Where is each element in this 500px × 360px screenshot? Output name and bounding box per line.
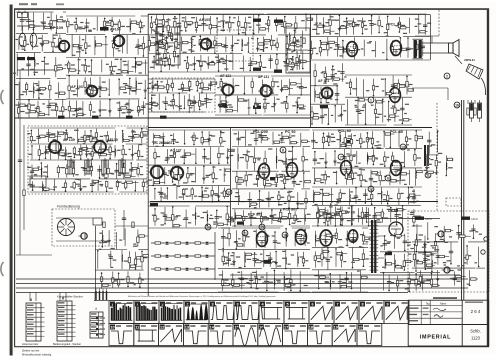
wire bbox=[310, 13, 426, 15]
value label bbox=[273, 40, 276, 41]
wire bbox=[215, 63, 217, 65]
value label bbox=[225, 22, 228, 23]
value label bbox=[121, 26, 125, 27]
value label bbox=[88, 93, 92, 94]
value label bbox=[248, 144, 252, 145]
wire bbox=[16, 33, 48, 35]
wire bbox=[110, 61, 112, 73]
value label bbox=[301, 20, 305, 21]
svg-text:Meßwerte mit Röhrenvoltmeter b: Meßwerte mit Röhrenvoltmeter bei Betrieb… bbox=[128, 295, 276, 298]
value label bbox=[40, 43, 44, 44]
wire bbox=[45, 114, 50, 116]
wire bbox=[384, 151, 386, 166]
IF dashed box bbox=[152, 78, 215, 112]
value label bbox=[335, 73, 337, 74]
capacitor bbox=[215, 216, 219, 218]
wire bbox=[195, 148, 197, 163]
value label bbox=[186, 154, 188, 155]
wire bbox=[297, 192, 299, 208]
resistor bbox=[68, 106, 70, 110]
resistor bbox=[348, 21, 354, 23]
value label bbox=[307, 214, 311, 215]
wire bbox=[398, 132, 400, 147]
value label bbox=[246, 216, 248, 217]
resistor bbox=[292, 62, 294, 68]
wire bbox=[336, 86, 338, 104]
value label bbox=[239, 177, 243, 178]
ground bbox=[292, 158, 294, 160]
resistor bbox=[417, 136, 423, 138]
value label bbox=[202, 42, 206, 43]
value label bbox=[363, 141, 366, 142]
wire bbox=[353, 18, 355, 35]
value label bbox=[131, 110, 134, 111]
value label bbox=[205, 188, 209, 189]
wire bbox=[189, 80, 191, 91]
ground bbox=[203, 177, 205, 179]
wire bbox=[73, 181, 75, 190]
value label bbox=[258, 103, 261, 104]
wire bbox=[256, 203, 258, 205]
value label bbox=[369, 156, 371, 157]
resistor bbox=[420, 31, 426, 33]
value label bbox=[96, 88, 100, 89]
value label bbox=[22, 91, 26, 92]
wire bbox=[218, 186, 220, 201]
wire bbox=[90, 163, 92, 177]
wire bbox=[268, 192, 270, 208]
value label bbox=[375, 86, 379, 87]
wire bbox=[17, 69, 60, 71]
wire bbox=[310, 59, 430, 61]
value label bbox=[221, 192, 225, 193]
value label bbox=[244, 44, 248, 45]
wire bbox=[378, 172, 380, 174]
value label bbox=[82, 39, 85, 40]
wire bbox=[62, 68, 66, 70]
value label bbox=[41, 153, 44, 154]
value label bbox=[208, 99, 212, 100]
wire bbox=[267, 13, 310, 15]
wire bbox=[349, 50, 355, 52]
value label bbox=[262, 67, 266, 68]
svg-text:1: 1 bbox=[370, 98, 372, 102]
wire bbox=[191, 38, 193, 53]
value label bbox=[59, 111, 63, 112]
resistor bbox=[394, 108, 396, 114]
value label bbox=[287, 192, 291, 193]
wire bbox=[129, 140, 133, 142]
capacitor bbox=[313, 158, 317, 160]
value label bbox=[221, 30, 225, 31]
UHF tuner box bbox=[156, 27, 180, 65]
wire bbox=[276, 54, 278, 71]
value label bbox=[364, 29, 367, 30]
resistor bbox=[203, 195, 209, 197]
resistor bbox=[349, 82, 351, 88]
wire bbox=[167, 149, 169, 164]
value label bbox=[115, 59, 119, 60]
resistor bbox=[360, 175, 362, 181]
wire bbox=[80, 180, 82, 190]
wire bbox=[83, 113, 86, 115]
wire bbox=[353, 21, 356, 23]
svg-text:AF 131: AF 131 bbox=[258, 75, 269, 79]
resistor bbox=[405, 137, 407, 141]
value label bbox=[418, 137, 421, 138]
resistor bbox=[272, 81, 274, 87]
svg-text:13: 13 bbox=[401, 145, 405, 149]
value label bbox=[263, 135, 267, 136]
resistor bbox=[96, 44, 102, 46]
wire bbox=[30, 130, 32, 143]
resistor bbox=[221, 101, 227, 103]
resistor bbox=[264, 103, 266, 109]
wire bbox=[218, 54, 220, 71]
wire bbox=[415, 131, 417, 148]
wire bbox=[171, 80, 173, 92]
svg-text:Schb.: Schb. bbox=[470, 329, 480, 334]
value label bbox=[167, 52, 169, 53]
wire bbox=[148, 146, 224, 148]
resistor bbox=[52, 42, 54, 46]
wire bbox=[422, 42, 449, 44]
capacitor bbox=[149, 102, 153, 104]
value label bbox=[204, 190, 207, 191]
value label bbox=[364, 216, 368, 217]
wire bbox=[307, 140, 310, 142]
resistor bbox=[142, 43, 144, 49]
wire bbox=[153, 56, 155, 69]
value label bbox=[344, 76, 346, 77]
resistor bbox=[326, 77, 332, 79]
wire bbox=[209, 195, 214, 197]
value label bbox=[261, 200, 264, 201]
wire bbox=[284, 174, 286, 188]
resistor bbox=[282, 217, 288, 219]
wire bbox=[339, 189, 341, 203]
resistor bbox=[403, 119, 409, 121]
resistor bbox=[134, 135, 140, 137]
value label bbox=[348, 136, 352, 137]
label chip bbox=[253, 106, 261, 109]
value label bbox=[204, 61, 206, 62]
coil bbox=[134, 61, 137, 68]
resistor bbox=[33, 168, 39, 170]
coil bbox=[241, 40, 244, 47]
value label bbox=[28, 184, 33, 185]
wire bbox=[251, 78, 253, 94]
value label bbox=[367, 199, 370, 200]
value label bbox=[240, 68, 245, 69]
wire bbox=[148, 34, 266, 36]
value label bbox=[87, 136, 91, 137]
wire bbox=[156, 36, 158, 50]
value label bbox=[78, 27, 83, 28]
value label bbox=[291, 135, 295, 136]
value label bbox=[177, 23, 181, 24]
value label bbox=[199, 88, 203, 89]
value label bbox=[93, 28, 96, 29]
wire bbox=[310, 103, 330, 105]
value label bbox=[83, 143, 86, 144]
wire bbox=[294, 211, 296, 223]
svg-text:AF 109: AF 109 bbox=[50, 25, 64, 30]
wire bbox=[56, 131, 58, 142]
value label bbox=[81, 64, 85, 65]
value label bbox=[55, 46, 58, 47]
wire bbox=[264, 96, 266, 112]
wire bbox=[304, 105, 307, 107]
value label bbox=[117, 150, 121, 151]
resistor bbox=[467, 108, 469, 115]
value label bbox=[109, 188, 113, 189]
wire bbox=[148, 36, 150, 51]
wire bbox=[356, 78, 358, 97]
svg-text:AW59-91: AW59-91 bbox=[464, 58, 475, 62]
wire bbox=[345, 124, 386, 126]
value label bbox=[178, 23, 182, 24]
value label bbox=[366, 90, 369, 91]
value label bbox=[151, 95, 156, 96]
value label bbox=[384, 32, 388, 33]
coil bbox=[201, 191, 204, 198]
resistor bbox=[183, 41, 189, 43]
resistor bbox=[336, 212, 342, 214]
wire bbox=[334, 151, 336, 166]
resistor bbox=[236, 177, 238, 183]
resistor bbox=[150, 23, 152, 27]
wire bbox=[331, 103, 345, 105]
wire bbox=[360, 169, 362, 186]
resistor bbox=[398, 209, 404, 211]
ground bbox=[193, 62, 195, 64]
value label bbox=[102, 149, 105, 150]
value label bbox=[410, 48, 413, 49]
value label bbox=[100, 185, 102, 186]
resistor bbox=[203, 139, 209, 141]
value label bbox=[215, 195, 219, 196]
value label bbox=[102, 109, 107, 110]
wire bbox=[415, 168, 417, 186]
wire bbox=[319, 41, 321, 57]
resistor bbox=[398, 193, 400, 199]
value label bbox=[343, 21, 347, 22]
value label bbox=[257, 159, 260, 160]
wire bbox=[447, 88, 449, 100]
wire bbox=[371, 189, 373, 204]
value label bbox=[305, 159, 308, 160]
resistor bbox=[275, 20, 277, 26]
wire bbox=[218, 147, 220, 163]
ground bbox=[144, 89, 146, 91]
wire bbox=[36, 111, 42, 113]
value label bbox=[165, 57, 168, 58]
resistor bbox=[49, 86, 51, 90]
wire bbox=[107, 88, 109, 90]
wire bbox=[104, 18, 106, 31]
wire bbox=[66, 98, 140, 100]
wire bbox=[52, 150, 57, 152]
value label bbox=[327, 176, 330, 177]
wire bbox=[38, 81, 40, 99]
wire bbox=[181, 37, 183, 52]
wire bbox=[288, 94, 310, 96]
resistor bbox=[350, 155, 352, 161]
resistor bbox=[110, 66, 112, 70]
capacitor bbox=[136, 44, 140, 46]
value label bbox=[369, 138, 373, 139]
capacitor bbox=[412, 196, 416, 198]
wire bbox=[145, 46, 148, 48]
capacitor bbox=[163, 172, 167, 174]
resistor bbox=[73, 183, 75, 189]
wire bbox=[216, 210, 218, 227]
value label bbox=[112, 173, 115, 174]
wire bbox=[68, 60, 70, 73]
wire bbox=[366, 152, 368, 164]
wire bbox=[185, 16, 187, 31]
value label bbox=[117, 102, 120, 103]
wire bbox=[255, 98, 257, 114]
value label bbox=[281, 160, 284, 161]
resistor bbox=[263, 180, 265, 186]
wire bbox=[375, 99, 377, 125]
value label bbox=[100, 136, 103, 137]
value label bbox=[256, 158, 261, 159]
resistor bbox=[162, 20, 164, 26]
value label bbox=[288, 151, 292, 152]
wire bbox=[285, 151, 287, 168]
value label bbox=[180, 30, 183, 31]
value label bbox=[60, 150, 64, 151]
value label bbox=[240, 157, 244, 158]
value label bbox=[358, 216, 360, 217]
wire bbox=[164, 45, 166, 47]
wire bbox=[412, 87, 448, 89]
value label bbox=[400, 162, 404, 163]
coil bbox=[304, 214, 307, 221]
resistor bbox=[253, 158, 255, 162]
resistor bbox=[287, 59, 289, 63]
resistor bbox=[329, 20, 331, 26]
wire bbox=[174, 148, 176, 164]
wire bbox=[132, 129, 134, 142]
value label bbox=[88, 45, 91, 46]
value label bbox=[371, 105, 374, 106]
resistor bbox=[334, 78, 340, 80]
wire bbox=[148, 227, 217, 229]
wire bbox=[286, 97, 288, 113]
value label bbox=[188, 100, 192, 101]
wire bbox=[339, 78, 344, 80]
audio output transformer bbox=[414, 40, 417, 58]
value label bbox=[241, 201, 245, 202]
wire bbox=[332, 66, 334, 82]
value label bbox=[218, 21, 220, 22]
coil bbox=[285, 158, 288, 165]
supply dashed line bbox=[438, 10, 440, 36]
wire bbox=[126, 74, 148, 76]
wire bbox=[311, 106, 313, 124]
value label bbox=[113, 40, 116, 41]
value label bbox=[281, 102, 285, 103]
capacitor bbox=[165, 156, 169, 158]
wire bbox=[341, 63, 343, 82]
value label bbox=[281, 180, 283, 181]
value label bbox=[29, 24, 33, 25]
value label bbox=[323, 83, 326, 84]
transistor OC26 bbox=[151, 166, 163, 178]
value label bbox=[171, 65, 175, 66]
resistor bbox=[150, 43, 156, 45]
resistor bbox=[311, 112, 313, 118]
value label bbox=[82, 28, 86, 29]
resistor bbox=[173, 51, 175, 57]
value label bbox=[140, 45, 144, 46]
capacitor bbox=[423, 24, 427, 26]
wire bbox=[49, 188, 54, 190]
ground bbox=[227, 156, 229, 158]
resistor bbox=[111, 22, 113, 26]
wire bbox=[350, 79, 352, 94]
value label bbox=[126, 26, 129, 27]
value label bbox=[249, 27, 252, 28]
resistor bbox=[62, 107, 64, 111]
wire bbox=[123, 164, 125, 179]
wire bbox=[127, 60, 129, 73]
value label bbox=[363, 105, 366, 106]
value label bbox=[274, 214, 277, 215]
value label bbox=[159, 33, 162, 34]
wire bbox=[323, 133, 325, 148]
svg-text:2: 2 bbox=[446, 74, 448, 78]
value label bbox=[113, 66, 117, 67]
capacitor bbox=[176, 32, 180, 34]
value label bbox=[417, 157, 421, 158]
wire bbox=[320, 192, 323, 194]
svg-text:I: I bbox=[95, 306, 96, 311]
wire bbox=[129, 18, 131, 32]
value label bbox=[177, 186, 180, 187]
value label bbox=[94, 152, 98, 153]
wire bbox=[75, 18, 77, 32]
value label bbox=[234, 133, 238, 134]
value label bbox=[33, 72, 38, 73]
value label bbox=[278, 204, 282, 205]
value label bbox=[333, 83, 337, 84]
wire bbox=[275, 148, 277, 169]
svg-text:DY 86: DY 86 bbox=[388, 209, 397, 213]
capacitor bbox=[363, 193, 367, 195]
wire bbox=[193, 56, 195, 69]
coil bbox=[314, 91, 317, 98]
wire bbox=[67, 18, 69, 33]
resistor bbox=[372, 86, 374, 90]
value label bbox=[109, 140, 113, 141]
value label bbox=[39, 187, 43, 188]
value label bbox=[352, 88, 356, 89]
value label bbox=[373, 24, 376, 25]
capacitor bbox=[369, 23, 373, 25]
value label bbox=[126, 103, 130, 104]
svg-text:10: 10 bbox=[110, 326, 114, 330]
value label bbox=[73, 94, 77, 95]
value label bbox=[134, 134, 136, 135]
value label bbox=[342, 142, 346, 143]
wire bbox=[71, 35, 73, 57]
resistor bbox=[178, 175, 180, 181]
